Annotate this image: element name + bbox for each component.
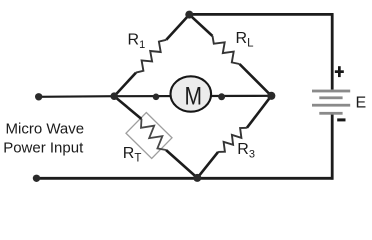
svg-text:R1: R1: [128, 32, 146, 52]
wire: branch T to R lower part: [240, 64, 272, 96]
wire: branch L to T upper part: [166, 15, 189, 40]
label minus: [337, 118, 345, 121]
svg-text:Power Input: Power Input: [3, 140, 84, 157]
wire: left input top horizontal: [39, 95, 115, 98]
wire: right vertical upper (to battery +): [331, 13, 334, 89]
node dot: left vertex: [110, 92, 118, 100]
wire: branch L to T lower part: [114, 73, 136, 97]
node dot: top node: [185, 11, 193, 19]
svg-text:R3: R3: [237, 141, 255, 161]
svg-text:Micro Wave: Micro Wave: [6, 121, 85, 138]
label plus: [335, 70, 344, 73]
battery E plate 1 long (+): [312, 90, 350, 93]
svg-text:E: E: [356, 95, 367, 112]
node dot: left input top terminal: [35, 93, 42, 100]
battery E plate 4 short (-): [319, 112, 342, 115]
RT bolometer box: [126, 113, 172, 159]
resistor RT zigzag: [141, 119, 166, 150]
svg-text:RT: RT: [123, 145, 142, 165]
resistor R1 zigzag: [136, 40, 166, 73]
svg-text:M: M: [185, 83, 203, 111]
wire: branch B to R upper part: [247, 96, 271, 128]
wire: center horizontal through meter: [114, 95, 271, 98]
svg-text:RL: RL: [236, 30, 255, 50]
node dot: meter right: [218, 93, 225, 100]
node dot: left input bottom terminal: [33, 175, 40, 182]
wire: branch L to B lower part: [166, 150, 197, 178]
wire: top horizontal from top node to right: [189, 13, 333, 16]
node dot: meter left: [153, 94, 160, 101]
wire: bottom horizontal: [37, 177, 334, 180]
wire: branch T to R upper part: [189, 15, 212, 36]
resistor R3 zigzag: [218, 128, 247, 152]
node dot: bottom node: [193, 174, 201, 182]
battery E plate 2 short: [319, 96, 342, 99]
wire: branch B to R lower part: [197, 152, 218, 178]
resistor RL zigzag: [213, 36, 240, 64]
battery E plate 3 long: [312, 104, 350, 107]
wire: right vertical lower (from battery -): [331, 115, 334, 180]
node dot: right vertex: [267, 92, 275, 100]
meter M circle: [171, 76, 212, 111]
wire: branch L to B upper part: [114, 96, 141, 119]
